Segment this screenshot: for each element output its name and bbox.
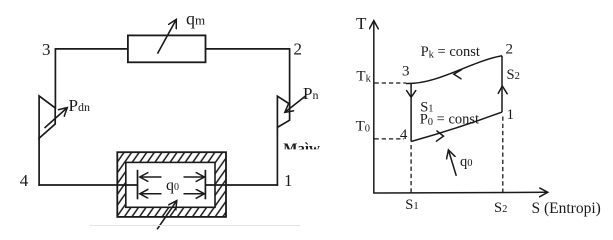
svg-text:2: 2 xyxy=(506,42,514,58)
line 3 to 4 (throttling) xyxy=(410,84,412,142)
evaporator left inner bar xyxy=(137,170,139,200)
svg-text:S1: S1 xyxy=(405,197,418,213)
svg-text:T: T xyxy=(356,14,367,33)
svg-text:3: 3 xyxy=(402,64,410,80)
wire bottom-left (4 to evaporator) xyxy=(38,184,137,186)
arrow from below pointing to q0 xyxy=(157,201,177,230)
svg-text:2: 2 xyxy=(294,40,303,59)
wire right vertical lower (Pn to node 1) xyxy=(276,127,278,186)
evaporator right inner bar xyxy=(204,170,206,200)
wire bottom-right (evaporator to 1) xyxy=(205,184,278,186)
svg-text:S2: S2 xyxy=(494,200,507,216)
svg-text:Tk: Tk xyxy=(356,69,371,85)
T axis xyxy=(373,21,375,193)
S axis xyxy=(373,191,548,194)
svg-text:q0: q0 xyxy=(460,154,473,170)
dashed line Tk to point 3 xyxy=(375,82,407,84)
svg-text:Maìw: Maìw xyxy=(283,141,320,157)
svg-text:T0: T0 xyxy=(356,119,370,135)
arrow left-top inside evaporator xyxy=(140,176,162,178)
line 1 to 2 (compression) xyxy=(501,56,503,112)
dashed vertical S2 xyxy=(502,117,504,193)
wire top-right (condenser to node2) xyxy=(205,48,290,50)
evaporator outer hatched box xyxy=(117,152,226,217)
svg-text:S2: S2 xyxy=(507,67,520,83)
svg-text:S (Entropi): S (Entropi) xyxy=(532,200,601,217)
svg-text:Pk = const: Pk = const xyxy=(421,44,480,61)
faint page artifact line bottom xyxy=(90,225,300,227)
svg-text:Pdn: Pdn xyxy=(69,96,90,115)
arrow left-bottom inside evaporator xyxy=(140,193,162,195)
svg-text:4: 4 xyxy=(20,171,29,190)
q0 arrow in TS diagram xyxy=(448,150,456,176)
svg-text:3: 3 xyxy=(42,40,51,59)
wire left vertical lower (Pdn to node 4) xyxy=(38,138,40,186)
svg-text:Pn: Pn xyxy=(303,84,318,103)
Pdn arrow xyxy=(45,108,68,128)
arrow right-top inside evaporator xyxy=(184,176,205,178)
arrowhead on curve 2->3 xyxy=(454,70,462,79)
arrow right-bottom inside evaporator xyxy=(184,193,205,195)
svg-text:1: 1 xyxy=(507,107,515,123)
partially hidden bold word "Maiw" xyxy=(283,141,320,157)
arrowhead down on 3-4 xyxy=(407,91,416,98)
dashed vertical S1 xyxy=(410,145,412,193)
svg-text:1: 1 xyxy=(284,171,293,190)
compressor Pn xyxy=(277,96,289,127)
arrowhead up on 1-2 xyxy=(498,86,507,94)
Pn arrow xyxy=(285,96,306,112)
svg-text:qm: qm xyxy=(186,8,205,28)
qm arrow through condenser xyxy=(158,19,177,53)
arrowhead on curve 4->1 xyxy=(436,131,443,141)
condenser (heat exchanger box) xyxy=(128,35,206,62)
curve 4 to 1 (P0 = const) xyxy=(411,112,502,141)
wire top-left (node3 to condenser) xyxy=(55,48,128,50)
evaporator inner box xyxy=(126,162,215,207)
dashed line T0 to point 4 xyxy=(375,138,405,140)
wire right vertical upper (2 down to Pn) xyxy=(289,48,291,105)
curve 3 to 2 (Pk = const) xyxy=(406,56,502,84)
wire left vertical upper (3 down to Pdn) xyxy=(54,48,56,109)
expansion device Pdn xyxy=(39,96,55,138)
svg-text:4: 4 xyxy=(400,127,408,143)
